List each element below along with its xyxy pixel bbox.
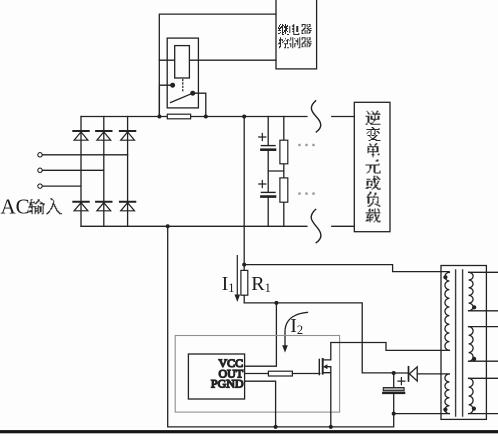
I2 current arrow [285,312,308,345]
AC input terminal 2 [38,168,42,172]
junction bus-right contact [204,115,208,119]
label AC input char ru [46,198,62,214]
junction bus-left contact [157,115,161,119]
resistor R1 [241,270,248,295]
relay contact dot left [170,83,175,88]
wire gate [292,373,319,375]
wire controller to relay (top) [159,14,276,116]
PWM controller IC U1 [188,354,244,399]
ellipsis dots lower [298,192,314,194]
wire VCC riser [245,303,277,366]
secondary winding 3 [469,378,474,413]
capacitor C2 [261,191,275,193]
capacitor C1 plus sign [259,134,266,141]
inverter/load box [354,102,390,231]
break squiggle bottom [311,209,321,242]
wire coil to controller [159,59,276,61]
control module outline (gray) [175,336,339,413]
bleeder resistor 1 [280,140,288,164]
junction cap bottom [392,412,396,416]
capacitor C1 [261,145,275,147]
svg-text:AC: AC [1,194,30,218]
relay switch blade [171,93,193,102]
wire AC phase 1 [42,154,127,156]
bridge leg 1 [80,117,82,227]
bleeder resistor legs [283,117,285,227]
label relay controller line 1 [278,24,289,35]
svg-text:PGND: PGND [211,377,244,391]
wire to primary top [244,265,449,272]
wire OUT to gate resistor [245,373,269,375]
wire AC phase 3 [42,185,81,187]
secondary 3 polarity dot [472,407,476,411]
junction bottom bus / ground drop [166,224,170,228]
diode D5 (bottom row) [96,201,111,203]
relay coil [175,46,190,78]
primary winding [445,272,450,350]
bottom border bar [0,430,498,433]
gate resistor [268,371,292,376]
diode D7 wire [394,372,449,375]
diode D6 (bottom row) [120,201,135,203]
relay controller box [276,0,317,69]
label relay controller line 2 [278,37,289,48]
relay outer box [167,38,198,108]
bottom bus (-) [81,225,354,227]
AC input terminal 1 [38,153,42,157]
MOSFET Q1 [319,359,331,375]
secondary 2 polarity dot [472,357,476,361]
wire right contact to bus [193,93,206,116]
junction top bus / HV branch [242,115,246,119]
wire mid link [268,170,284,172]
wire AC phase 2 [42,169,104,171]
bridge leg 3 [127,117,129,227]
capacitor C2 plus sign [259,181,266,188]
wire PGND to ground rail [245,381,276,427]
secondary winding 2 [469,327,474,362]
wire cap leg top [267,117,269,227]
bleeder resistor 2 [280,178,288,202]
junction R1 top [242,263,246,267]
wire VCC node down to cap [393,373,395,414]
wire R1 bottom [244,303,394,373]
VCC capacitor C3 [383,388,404,391]
VCC capacitor plus sign [398,378,405,385]
transformer T1 box [441,266,486,420]
primary polarity dot [443,275,447,279]
break squiggle top [311,101,320,132]
wire ground rail [168,226,394,427]
secondary winding 1 [469,272,474,311]
junction PGND/rail [274,425,278,429]
transformer core [456,270,463,416]
top bus (+) [81,116,354,118]
inrush resistor [167,114,190,119]
diode D2 (top row) [96,130,111,132]
aux polarity dot [443,408,447,412]
label AC input char shu [29,199,45,214]
secondary output wires [469,272,498,413]
wire HV branch down [243,117,245,265]
junction VCC riser [274,301,278,305]
bridge leg 2 [103,117,105,227]
wire left contact to bus [159,85,172,116]
wire source to ground rail [330,373,332,427]
ellipsis dots upper [298,144,314,146]
label inverter unit or load (vertical) [366,111,381,125]
coil-contact link dotted [182,80,184,93]
diode D7 [408,367,410,381]
relay contact dot right [190,91,195,96]
secondary 1 polarity dot [472,305,476,309]
I1 current arrow [236,256,238,295]
diode D1 (top row) [73,130,88,132]
diode D3 (top row) [120,130,135,132]
aux winding [445,374,450,414]
wire aux winding bottom [394,413,449,415]
wire drain to primary bottom [331,343,449,360]
junction source/rail [329,425,333,429]
junction VCC node [392,371,396,375]
diode D4 (bottom row) [73,201,88,203]
AC input terminal 3 [38,184,42,188]
